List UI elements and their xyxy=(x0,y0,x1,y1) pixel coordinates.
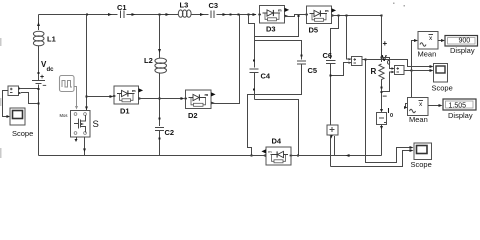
svg-text:C4: C4 xyxy=(261,72,271,81)
svg-text:D4: D4 xyxy=(272,137,282,146)
svg-text:C2: C2 xyxy=(165,128,175,137)
svg-text:1.505: 1.505 xyxy=(449,103,467,110)
svg-text:D1: D1 xyxy=(120,107,130,116)
svg-text:D2: D2 xyxy=(188,111,198,120)
svg-text:+: + xyxy=(40,74,44,81)
svg-text:S: S xyxy=(93,119,99,130)
svg-text:C3: C3 xyxy=(209,1,219,10)
svg-text:Scope: Scope xyxy=(432,84,453,93)
svg-text:D5: D5 xyxy=(309,26,319,35)
svg-text:Scope: Scope xyxy=(411,160,432,169)
svg-text:L2: L2 xyxy=(144,56,153,65)
svg-text:0: 0 xyxy=(390,113,393,119)
svg-text:dc: dc xyxy=(47,67,55,73)
svg-text:+: + xyxy=(383,39,388,48)
svg-text:900: 900 xyxy=(459,38,471,45)
svg-text:Mean: Mean xyxy=(409,115,428,124)
svg-text:L3: L3 xyxy=(180,1,189,10)
svg-text:C5: C5 xyxy=(308,66,318,75)
svg-text:Display: Display xyxy=(450,46,475,55)
svg-text:C1: C1 xyxy=(117,3,127,12)
svg-text:Scope: Scope xyxy=(12,129,33,138)
svg-text:Display: Display xyxy=(448,111,473,120)
svg-text:–: – xyxy=(383,92,388,101)
svg-text:C6: C6 xyxy=(323,51,333,60)
svg-text:–: – xyxy=(43,83,47,90)
svg-text:Mean: Mean xyxy=(418,50,437,59)
svg-text:D3: D3 xyxy=(266,25,276,34)
svg-text:L1: L1 xyxy=(47,35,56,44)
svg-text:Mos: Mos xyxy=(60,113,68,118)
svg-text:R: R xyxy=(371,67,377,76)
